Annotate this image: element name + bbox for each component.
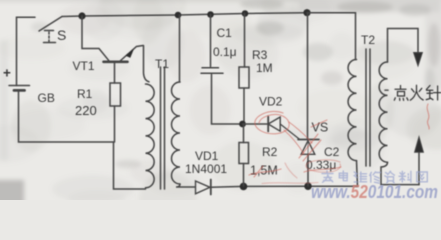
wire top-left corner and left vertical	[17, 17, 36, 85]
watermark www.520101.com	[311, 182, 438, 202]
scribble oval around 0.33u	[306, 160, 341, 172]
svg-text:www.520101.com: www.520101.com	[311, 182, 438, 200]
wire battery negative down and right	[19, 92, 114, 143]
transformer T2 primary winding	[348, 60, 356, 161]
thyristor VS anode lead	[307, 155, 309, 187]
svg-text:VD2: VD2	[259, 95, 283, 109]
diode VD1	[196, 181, 211, 194]
thyristor VS cathode bar	[298, 139, 319, 141]
wire node to VD2	[243, 123, 268, 125]
wm glyph dian2	[339, 171, 347, 181]
node VS-T2 top	[303, 9, 310, 16]
node VD2-R2-R3-C1	[239, 121, 246, 128]
T1 secondary top lead	[179, 15, 181, 82]
transistor VT1 emitter	[120, 46, 144, 62]
svg-text:R2: R2	[262, 145, 278, 159]
scribble under 0.33u	[304, 167, 341, 172]
resistor R3 body	[239, 67, 249, 88]
transistor VT1 base lead	[114, 63, 116, 83]
resistor R1 body	[110, 83, 121, 106]
capacitor C1 plates	[201, 68, 223, 73]
scribble under 1.5M	[249, 166, 281, 177]
node T1 secondary top	[175, 12, 182, 19]
svg-text:T1: T1	[155, 57, 169, 71]
node C1 top	[207, 11, 214, 18]
svg-text:1N4001: 1N4001	[185, 162, 227, 176]
svg-text:R3: R3	[252, 48, 268, 62]
wm glyph zi	[385, 171, 395, 183]
node switch-collector	[78, 12, 85, 19]
svg-text:VT1: VT1	[73, 59, 95, 73]
glyph dian	[394, 86, 408, 101]
transformer T1 primary winding	[146, 84, 155, 188]
T2 secondary top bridge to electrode	[388, 29, 419, 63]
stray mark left of label	[385, 89, 388, 91]
transistor VT1 collector wire	[82, 16, 109, 61]
svg-text:C2: C2	[324, 145, 340, 159]
svg-text:+: +	[3, 66, 11, 81]
wire top rail	[62, 13, 307, 17]
wm glyph jia	[322, 171, 333, 183]
scribble right edge	[427, 104, 429, 129]
T2 secondary bottom lead	[381, 162, 419, 184]
node R2 bottom	[240, 183, 248, 191]
scribble over VS	[299, 134, 318, 158]
wire VD2 to VS gate	[280, 124, 299, 139]
svg-text:1M: 1M	[256, 61, 273, 75]
T1 secondary bottom to rail	[176, 184, 195, 187]
resistor R2 body	[239, 143, 249, 164]
wm glyph wang	[417, 172, 428, 182]
svg-text:GB: GB	[38, 91, 55, 105]
transformer T2 secondary winding	[379, 62, 387, 162]
wm glyph liao	[399, 171, 411, 182]
T2 primary bottom lead	[357, 161, 358, 187]
wire battery to R1 bottom rail	[114, 142, 146, 189]
transformer T1 secondary winding	[172, 82, 181, 184]
emitter arrowhead	[126, 49, 134, 57]
svg-text:T2: T2	[361, 33, 375, 47]
watermark chinese line	[322, 171, 427, 183]
scribble loop around VD2	[255, 111, 289, 133]
red pen scribbles	[249, 104, 429, 184]
battery GB plates	[9, 85, 30, 87]
ignition electrode upper arrow	[414, 53, 423, 66]
wire emitter to T1	[144, 46, 150, 82]
scribble streak along rail	[262, 183, 318, 184]
ignition electrode lower arrow	[415, 137, 424, 153]
svg-text:C1: C1	[217, 26, 233, 40]
transistor VT1 base bar	[104, 60, 128, 63]
wire bottom rail	[211, 186, 358, 187]
transformer T2 core	[366, 49, 370, 166]
svg-text:0.1μ: 0.1μ	[213, 45, 237, 59]
svg-text:S: S	[57, 27, 66, 43]
wire top to T2 primary	[307, 13, 356, 60]
thyristor VS triangle	[301, 141, 315, 155]
node VS bottom	[304, 182, 312, 190]
glyph zhen	[426, 86, 441, 101]
scribble over VS label	[311, 120, 327, 127]
diode VD2	[267, 117, 269, 132]
svg-text:R1: R1	[77, 87, 93, 101]
node R3 top	[242, 10, 249, 17]
glyph huo	[410, 85, 423, 100]
resistor R3 leads	[243, 14, 246, 125]
resistor R1 bottom lead	[114, 106, 116, 142]
switch S blade	[39, 17, 62, 32]
scribble streaks to VS	[284, 130, 304, 154]
svg-text:220: 220	[75, 103, 97, 118]
ignition electrode lower arrow shaft	[418, 152, 420, 185]
transformer T1 core	[161, 67, 165, 189]
wm glyph xiu	[370, 172, 381, 183]
svg-text:VD1: VD1	[195, 149, 219, 163]
switch S actuator	[44, 31, 56, 43]
capacitor C1 leads	[211, 15, 243, 125]
thyristor VS cathode lead top	[307, 13, 309, 140]
label ignition needle (dian huo zhen) drawn glyphs	[385, 85, 441, 100]
resistor R2 leads	[243, 124, 245, 186]
main circuit	[9, 9, 423, 194]
wm glyph wei	[354, 172, 366, 182]
